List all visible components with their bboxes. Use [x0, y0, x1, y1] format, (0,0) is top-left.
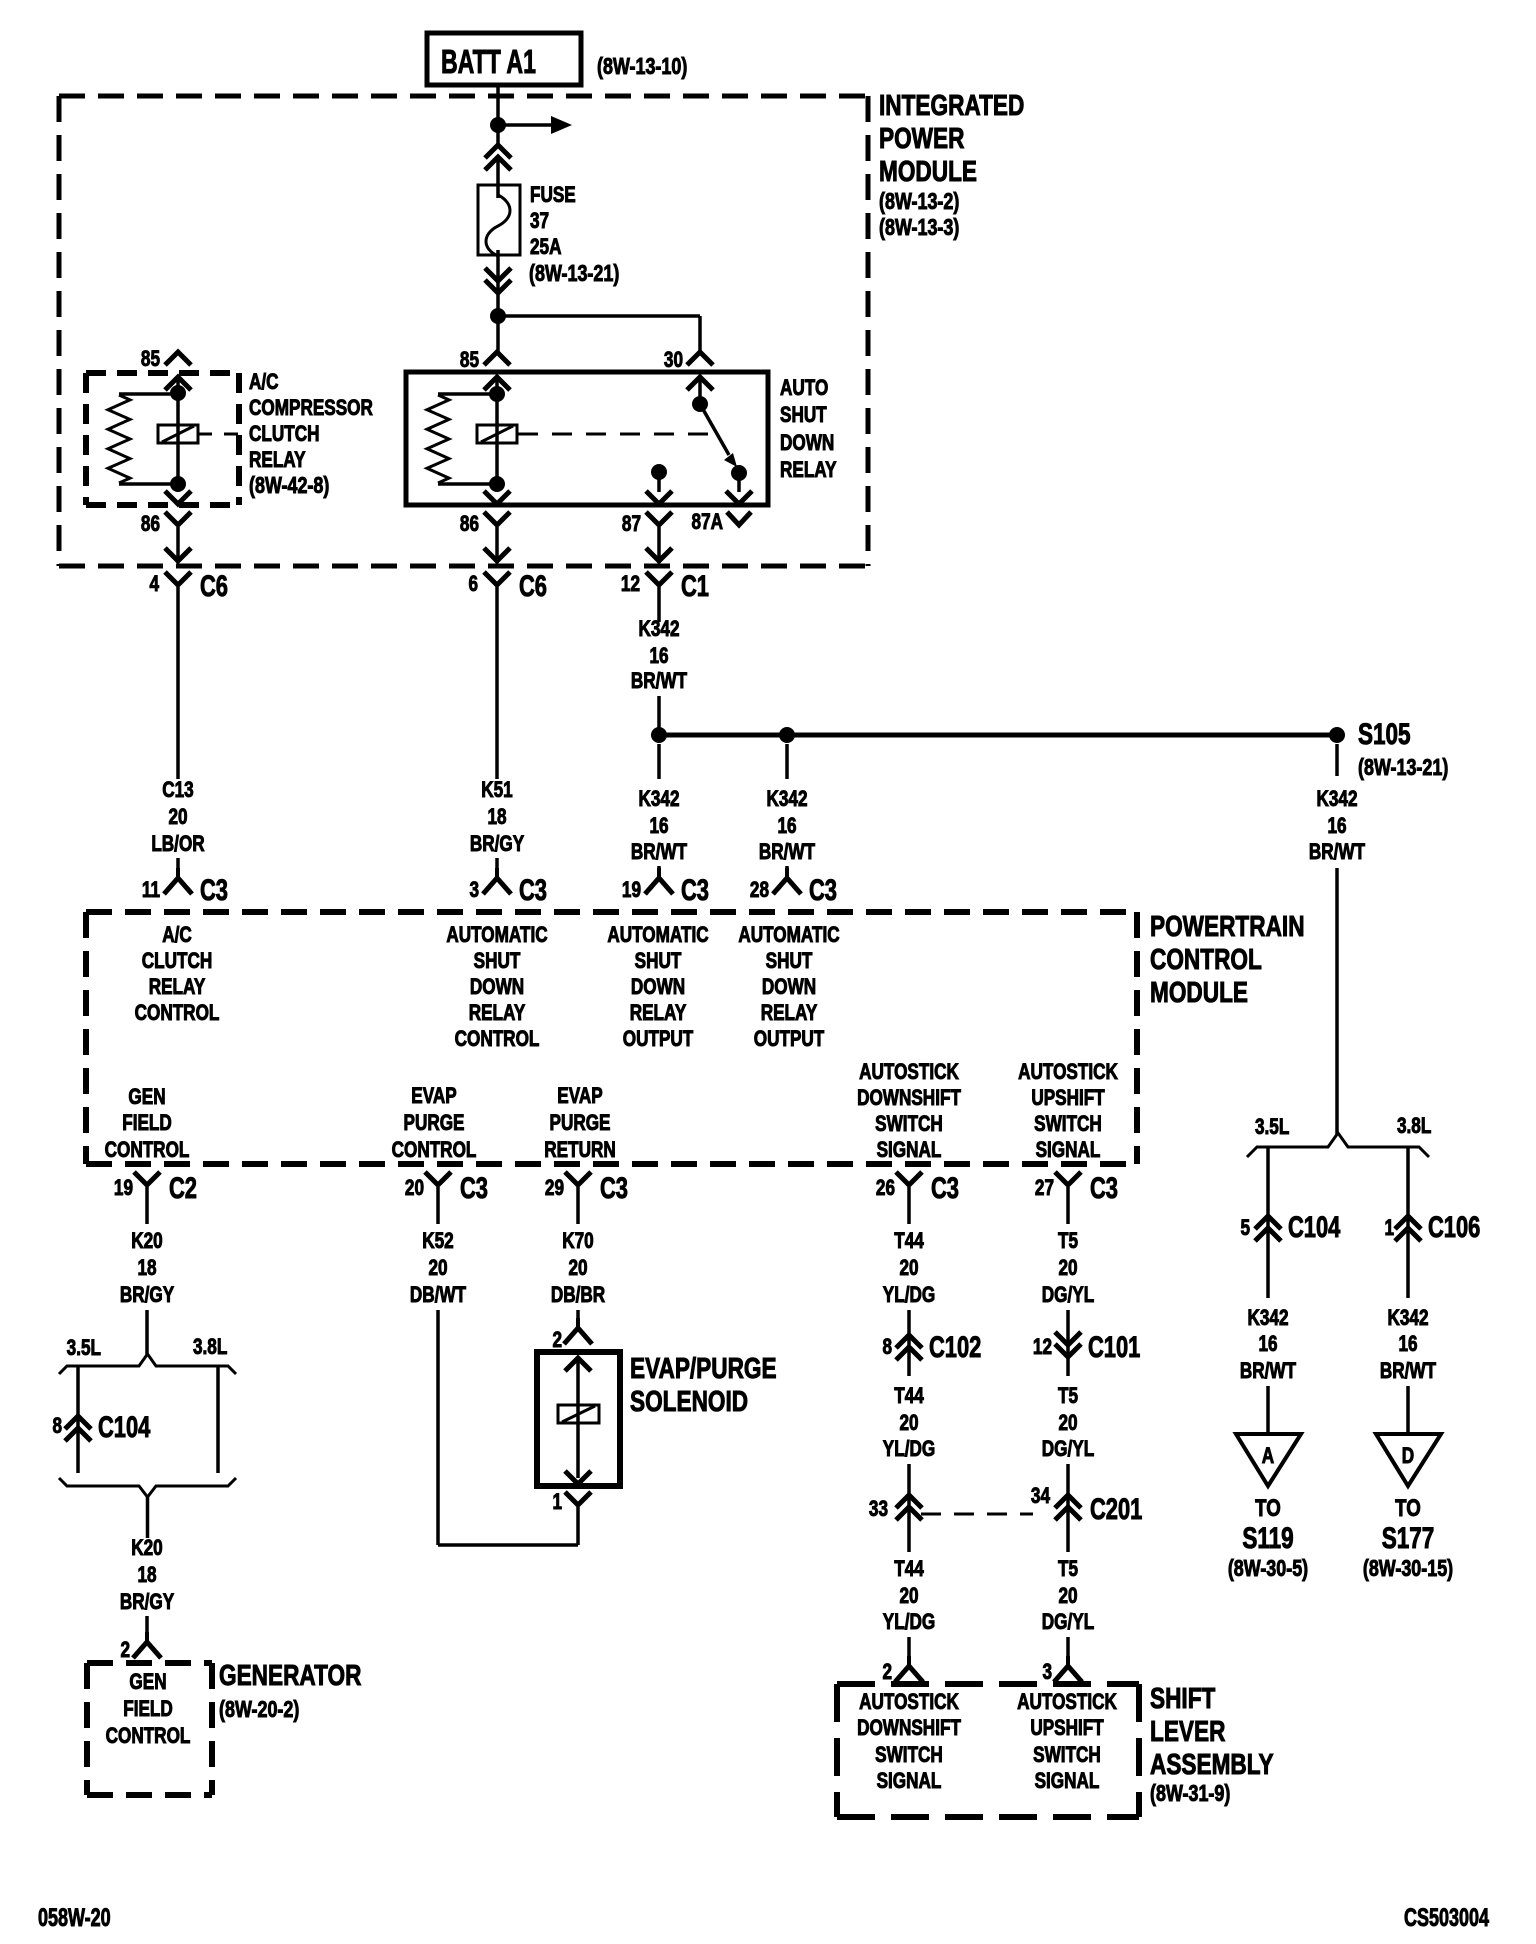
- drawing code CS503004: [1404, 1903, 1489, 1932]
- label SHIFT: [1150, 1681, 1215, 1714]
- svg-text:2: 2: [882, 1660, 892, 1685]
- svg-text:PURGE: PURGE: [404, 1111, 465, 1136]
- connector name C3 x578: [600, 1171, 628, 1205]
- svg-text:FUSE: FUSE: [530, 183, 576, 208]
- wire T44 to C201: [907, 1464, 911, 1552]
- wire C13 20 LB/OR upper segment: [176, 587, 180, 779]
- wire gauge 20 T5 lower: [1058, 1584, 1077, 1609]
- svg-text:(8W-30-5): (8W-30-5): [1228, 1556, 1308, 1582]
- reference (8W-13-21): [529, 261, 619, 287]
- svg-text:3.5L: 3.5L: [1255, 1115, 1289, 1140]
- svg-text:A/C: A/C: [249, 370, 279, 395]
- connector name C6: [200, 569, 228, 603]
- splice S105 node: [1329, 727, 1345, 743]
- reference (8W-13-10): [597, 54, 687, 80]
- pin 87 fork: [646, 512, 672, 525]
- wire stub to C3 pin 28: [785, 866, 789, 868]
- svg-text:T5: T5: [1058, 1229, 1078, 1254]
- svg-text:FIELD: FIELD: [123, 1697, 173, 1722]
- svg-text:K20: K20: [131, 1536, 162, 1561]
- pin 30 chevron ASD relay: [687, 352, 713, 365]
- cavity number 1 solenoid: [552, 1490, 562, 1515]
- cavity number 2 solenoid: [552, 1328, 562, 1353]
- powertrain control module dashed boundary: [86, 912, 1137, 1164]
- wire label K342 upper: [638, 617, 679, 642]
- label A/C: [249, 370, 279, 395]
- wire color YL/DG upper: [883, 1283, 935, 1308]
- svg-text:87: 87: [622, 512, 641, 537]
- wire color DB/WT: [410, 1283, 466, 1308]
- label CLUTCH: [249, 422, 320, 447]
- connector C3 cavity 20: [405, 1176, 424, 1201]
- svg-text:3.5L: 3.5L: [67, 1336, 101, 1361]
- wire K342 to off-page A: [1266, 1386, 1270, 1434]
- wire color DG/YL lower: [1042, 1610, 1094, 1635]
- svg-text:1: 1: [1384, 1216, 1394, 1241]
- split branch wire 3.8L right: [1406, 1148, 1410, 1298]
- label SHUT: [780, 403, 827, 428]
- svg-text:T5: T5: [1058, 1557, 1078, 1582]
- wire gauge 20: [168, 805, 187, 830]
- svg-text:BR/WT: BR/WT: [759, 840, 815, 865]
- svg-text:C13: C13: [162, 778, 193, 803]
- svg-text:27: 27: [1035, 1176, 1054, 1201]
- svg-text:BR/WT: BR/WT: [1309, 840, 1365, 865]
- wire label C13: [162, 778, 193, 803]
- svg-text:20: 20: [899, 1411, 918, 1436]
- solenoid cavity 2 symbol: [564, 1318, 592, 1344]
- svg-text:BR/WT: BR/WT: [631, 840, 687, 865]
- cavity number 5 C104: [1240, 1216, 1250, 1241]
- splice name S119: [1242, 1521, 1293, 1555]
- svg-text:SHUT: SHUT: [474, 949, 521, 974]
- svg-text:BR/GY: BR/GY: [120, 1283, 174, 1308]
- wire label K20 lower: [131, 1536, 162, 1561]
- label MODULE pcm: [1150, 975, 1248, 1008]
- cavity number 28: [750, 878, 769, 903]
- svg-text:8: 8: [52, 1414, 62, 1439]
- svg-text:S177: S177: [1382, 1521, 1435, 1555]
- pin 86 fork ASD relay: [484, 512, 510, 525]
- svg-text:20: 20: [899, 1256, 918, 1281]
- wire stub to C3 pin 3: [495, 858, 499, 868]
- pcm pin function AUTOMATIC SHUT DOWN RELAY OUTPUT first: [607, 923, 708, 948]
- stub below S105: [1335, 744, 1339, 776]
- svg-text:1: 1: [552, 1490, 562, 1515]
- label POWER: [879, 121, 965, 154]
- connector C201 chevrons cavity 34: [1055, 1495, 1081, 1520]
- connector C102 chevrons cavity 8: [896, 1335, 922, 1360]
- shift lever assembly dashed boundary: [837, 1684, 1139, 1817]
- ASD relay pin 87 chevron inside: [646, 491, 672, 504]
- connector C2 cavity 19: [114, 1176, 133, 1201]
- wire pin 86 to C6 x497: [495, 527, 499, 563]
- svg-text:DB/WT: DB/WT: [410, 1283, 466, 1308]
- junction node x659 on bus: [651, 727, 667, 743]
- split branch wire 3.5L right: [1266, 1148, 1270, 1298]
- letter A: [1262, 1444, 1274, 1469]
- connector name C106: [1428, 1210, 1480, 1244]
- svg-text:C3: C3: [681, 873, 709, 907]
- svg-text:CONTROL: CONTROL: [1150, 942, 1262, 975]
- wire label T5 lower: [1058, 1557, 1078, 1582]
- cavity number 3: [469, 878, 479, 903]
- svg-text:20: 20: [405, 1176, 424, 1201]
- svg-text:YL/DG: YL/DG: [883, 1610, 935, 1635]
- svg-text:28: 28: [750, 878, 769, 903]
- svg-text:16: 16: [777, 814, 796, 839]
- wire gauge 20 K52: [428, 1256, 447, 1281]
- generator pin function GEN: [129, 1670, 166, 1695]
- svg-text:DG/YL: DG/YL: [1042, 1610, 1094, 1635]
- connector name C3 x659: [681, 873, 709, 907]
- connector name C3 x1068: [1090, 1171, 1118, 1205]
- svg-text:C6: C6: [519, 569, 547, 603]
- connector half chevrons above fuse: [485, 145, 511, 170]
- svg-text:RETURN: RETURN: [544, 1138, 615, 1163]
- label DOWN: [780, 431, 834, 456]
- engine variant split brace bottom left: [59, 1478, 236, 1497]
- svg-text:C3: C3: [931, 1171, 959, 1205]
- wire gauge 20 T44 lower: [899, 1584, 918, 1609]
- cavity number 34: [1031, 1484, 1050, 1509]
- label 3.5L right split: [1255, 1115, 1289, 1140]
- svg-text:SHIFT: SHIFT: [1150, 1681, 1215, 1714]
- cavity number 19: [622, 878, 641, 903]
- connector name C3 x497: [519, 873, 547, 907]
- svg-text:BATT A1: BATT A1: [441, 44, 536, 81]
- junction node on battery feed: [490, 117, 506, 133]
- svg-text:CONTROL: CONTROL: [106, 1724, 191, 1749]
- label BATT A1: [441, 44, 536, 81]
- label LEVER: [1150, 1714, 1226, 1747]
- wire color BR/GY: [470, 832, 524, 857]
- svg-text:POWER: POWER: [879, 121, 965, 154]
- junction node below fuse: [490, 308, 506, 324]
- svg-text:C3: C3: [809, 873, 837, 907]
- connector C3 cavity 29: [545, 1176, 564, 1201]
- A/C relay coil wire: [176, 380, 180, 484]
- wire color YL/DG middle: [883, 1437, 935, 1462]
- svg-text:GEN: GEN: [128, 1085, 165, 1110]
- wire label T44 lower: [894, 1557, 924, 1582]
- svg-text:K342: K342: [1316, 787, 1357, 812]
- A/C relay pin 86 chevron inside: [165, 491, 191, 504]
- connector C3 cavity 28 symbol: [773, 868, 801, 894]
- wire color BR/WT x1268: [1240, 1359, 1296, 1384]
- connector name C104 right: [1288, 1210, 1341, 1244]
- solenoid pin 2 chevron inside: [565, 1358, 591, 1371]
- wire color DG/YL upper: [1042, 1283, 1094, 1308]
- svg-text:BR/WT: BR/WT: [1240, 1359, 1296, 1384]
- wire gauge 18: [487, 805, 506, 830]
- pcm pin function EVAP PURGE CONTROL: [411, 1084, 456, 1109]
- wire K20 to engine split: [145, 1310, 149, 1356]
- engine variant split brace top left: [59, 1354, 236, 1374]
- wire label K52: [422, 1229, 453, 1254]
- connector C3 fork x578: [565, 1172, 591, 1224]
- wire K20 below split: [146, 1497, 150, 1538]
- svg-text:37: 37: [530, 209, 549, 234]
- svg-text:16: 16: [1398, 1332, 1417, 1357]
- connector C3 cavity 11 symbol: [164, 868, 192, 894]
- svg-text:SHUT: SHUT: [766, 949, 813, 974]
- wire T5 to C101: [1066, 1310, 1070, 1376]
- shift lever cavity 2 symbol: [895, 1656, 923, 1682]
- wire gauge 16 x1408: [1398, 1332, 1417, 1357]
- svg-text:C104: C104: [98, 1410, 151, 1444]
- svg-text:16: 16: [1258, 1332, 1277, 1357]
- svg-text:C3: C3: [519, 873, 547, 907]
- ASD relay pin 30 chevron inside: [687, 377, 713, 390]
- wire label K70: [562, 1229, 593, 1254]
- label 3.8L right split: [1397, 1114, 1431, 1139]
- svg-text:K342: K342: [638, 617, 679, 642]
- svg-text:18: 18: [137, 1256, 156, 1281]
- relay K1 auto shut down relay box: [406, 372, 768, 505]
- svg-text:3: 3: [469, 878, 479, 903]
- svg-text:33: 33: [869, 1497, 888, 1522]
- reference (8W-13-3): [879, 215, 959, 241]
- wire color LB/OR: [151, 832, 204, 857]
- wire label K342 x1408: [1387, 1306, 1428, 1331]
- svg-text:S119: S119: [1242, 1521, 1293, 1555]
- wire gauge 16 x787: [777, 814, 796, 839]
- cavity number 12 C101: [1033, 1335, 1052, 1360]
- svg-text:DOWNSHIFT: DOWNSHIFT: [857, 1086, 961, 1111]
- svg-text:3.8L: 3.8L: [193, 1335, 227, 1360]
- svg-text:AUTOSTICK: AUTOSTICK: [1018, 1060, 1118, 1085]
- svg-text:C3: C3: [600, 1171, 628, 1205]
- svg-text:C3: C3: [460, 1171, 488, 1205]
- wire color BR/WT x659: [631, 840, 687, 865]
- svg-text:CONTROL: CONTROL: [455, 1027, 540, 1052]
- connector C104 chevrons cavity 8: [65, 1416, 91, 1441]
- value 37: [530, 209, 549, 234]
- wire label K342 x1268: [1247, 1306, 1288, 1331]
- pin 86 A/C relay: [141, 512, 160, 537]
- split branch wire 3.5L left: [76, 1367, 80, 1473]
- svg-text:C3: C3: [1090, 1171, 1118, 1205]
- svg-text:DOWNSHIFT: DOWNSHIFT: [857, 1716, 961, 1741]
- connector C1 cavity 12: [621, 572, 640, 597]
- ASD relay pin 85 chevron inside: [484, 377, 510, 390]
- svg-text:YL/DG: YL/DG: [883, 1437, 935, 1462]
- wire label K342 x787: [766, 787, 807, 812]
- svg-text:A/C: A/C: [162, 923, 192, 948]
- wire stub to C3 pin 11: [176, 858, 180, 868]
- ASD relay contact 87A: [731, 465, 747, 481]
- svg-text:C106: C106: [1428, 1210, 1480, 1244]
- svg-text:BR/GY: BR/GY: [470, 832, 524, 857]
- wire branch to ASD relay pin 30: [498, 316, 700, 352]
- cavity number 2 generator: [120, 1638, 130, 1663]
- label 3.5L left split: [67, 1336, 101, 1361]
- wire stub to C3 pin 19: [657, 866, 661, 868]
- connector C6 cavity 4: [149, 572, 159, 597]
- wire pin 87 to C1: [657, 527, 661, 563]
- wire T5 to C201: [1066, 1464, 1070, 1552]
- wire label T44 upper: [894, 1229, 924, 1254]
- connector C1 fork: [646, 572, 672, 585]
- label RELAY: [780, 458, 837, 483]
- svg-text:CONTROL: CONTROL: [105, 1138, 190, 1163]
- wire color DB/BR: [551, 1283, 605, 1308]
- pin 85 chevron A/C relay: [165, 352, 191, 365]
- svg-text:DOWN: DOWN: [762, 975, 816, 1000]
- svg-text:FIELD: FIELD: [122, 1111, 172, 1136]
- svg-text:LB/OR: LB/OR: [151, 832, 204, 857]
- svg-text:CLUTCH: CLUTCH: [249, 422, 320, 447]
- wire label T44 middle: [894, 1384, 924, 1409]
- svg-text:C3: C3: [200, 873, 228, 907]
- cavity number 2 shift lever: [882, 1660, 892, 1685]
- svg-text:19: 19: [114, 1176, 133, 1201]
- svg-text:SHUT: SHUT: [780, 403, 827, 428]
- svg-text:29: 29: [545, 1176, 564, 1201]
- arrow tap to other circuits: [498, 116, 572, 134]
- pcm pin function GEN FIELD CONTROL: [128, 1085, 165, 1110]
- svg-text:S105: S105: [1358, 717, 1411, 751]
- wire into fuse 37: [496, 158, 500, 198]
- svg-text:EVAP: EVAP: [411, 1084, 456, 1109]
- wire label K20 upper: [131, 1229, 162, 1254]
- ASD relay contact 87: [651, 464, 667, 480]
- ASD relay pin 87A wire: [737, 473, 741, 492]
- label 3.8L left split: [193, 1335, 227, 1360]
- svg-text:AUTOMATIC: AUTOMATIC: [446, 923, 547, 948]
- wire color BR/WT x1337: [1309, 840, 1365, 865]
- svg-text:T44: T44: [894, 1384, 924, 1409]
- connector half chevrons below fuse: [485, 268, 511, 293]
- svg-text:SIGNAL: SIGNAL: [1035, 1769, 1100, 1794]
- svg-text:20: 20: [428, 1256, 447, 1281]
- connector C3 cavity 3 symbol: [483, 868, 511, 894]
- A/C relay resistor top lead: [119, 392, 178, 396]
- reference (8W-30-5): [1228, 1556, 1308, 1582]
- svg-text:(8W-30-15): (8W-30-15): [1363, 1556, 1453, 1582]
- svg-text:TO: TO: [1255, 1495, 1281, 1522]
- svg-text:18: 18: [487, 805, 506, 830]
- splice bus wire to S105: [659, 733, 1337, 738]
- value 25A: [530, 235, 561, 260]
- connector C201 chevrons cavity 33: [896, 1495, 922, 1520]
- ASD relay switch pivot: [692, 396, 708, 412]
- solenoid coil: [558, 1405, 599, 1423]
- svg-text:SOLENOID: SOLENOID: [630, 1384, 748, 1417]
- svg-text:A: A: [1262, 1444, 1274, 1469]
- svg-text:EVAP: EVAP: [557, 1084, 602, 1109]
- svg-text:RELAY: RELAY: [469, 1001, 526, 1026]
- svg-text:16: 16: [1327, 814, 1346, 839]
- svg-text:30: 30: [664, 348, 683, 373]
- wire label T5 middle: [1058, 1384, 1078, 1409]
- label INTEGRATED POWER MODULE: [879, 88, 1024, 121]
- connector chevron at IPM boundary x497: [484, 548, 510, 561]
- pin 86 ASD relay: [460, 512, 479, 537]
- svg-text:UPSHIFT: UPSHIFT: [1030, 1716, 1103, 1741]
- svg-text:20: 20: [1058, 1411, 1077, 1436]
- svg-text:DOWN: DOWN: [470, 975, 524, 1000]
- connector C3 cavity 26: [876, 1176, 895, 1201]
- svg-text:2: 2: [552, 1328, 562, 1353]
- svg-text:DG/YL: DG/YL: [1042, 1283, 1094, 1308]
- wire gauge 16 upper: [649, 644, 668, 669]
- svg-text:YL/DG: YL/DG: [883, 1283, 935, 1308]
- pcm pin function EVAP PURGE RETURN: [557, 1084, 602, 1109]
- solenoid pin 1 fork: [565, 1492, 591, 1545]
- svg-text:ASSEMBLY: ASSEMBLY: [1150, 1747, 1274, 1780]
- wire gauge 20 T5 middle: [1058, 1411, 1077, 1436]
- ASD relay pin 86 chevron inside: [484, 491, 510, 504]
- svg-text:BR/WT: BR/WT: [631, 669, 687, 694]
- svg-text:DOWN: DOWN: [631, 975, 685, 1000]
- connector name C104 left: [98, 1410, 151, 1444]
- label ASSEMBLY: [1150, 1747, 1274, 1780]
- wire color YL/DG lower: [883, 1610, 935, 1635]
- svg-text:AUTOMATIC: AUTOMATIC: [607, 923, 708, 948]
- svg-text:20: 20: [1058, 1584, 1077, 1609]
- label SOLENOID: [630, 1384, 748, 1417]
- svg-text:MODULE: MODULE: [879, 154, 977, 187]
- svg-text:(8W-13-3): (8W-13-3): [879, 215, 959, 241]
- resistor in ASD relay: [427, 395, 449, 483]
- svg-text:SIGNAL: SIGNAL: [877, 1138, 942, 1163]
- generator dashed boundary: [87, 1663, 212, 1795]
- connector C2 fork: [134, 1172, 160, 1224]
- svg-text:(8W-13-2): (8W-13-2): [879, 189, 959, 215]
- connector C106 chevrons cavity 1: [1395, 1216, 1421, 1241]
- svg-text:RELAY: RELAY: [761, 1001, 818, 1026]
- svg-text:INTEGRATED: INTEGRATED: [879, 88, 1024, 121]
- ASD relay top junction: [489, 386, 505, 402]
- split branch wire 3.8L left: [216, 1367, 220, 1473]
- pin 30 ASD relay: [664, 348, 683, 373]
- wire K51 18 BR/GY upper segment: [495, 587, 499, 779]
- ASD relay pin 87A chevron inside: [726, 491, 752, 504]
- svg-text:11: 11: [142, 878, 160, 903]
- wire below fuse: [496, 250, 500, 316]
- connector name C3 x787: [809, 873, 837, 907]
- connector C3 fork x438: [425, 1172, 451, 1224]
- evap purge solenoid box: [537, 1352, 620, 1486]
- wire color DG/YL middle: [1042, 1437, 1094, 1462]
- splice name S105: [1358, 717, 1411, 751]
- label EVAP/PURGE: [630, 1351, 777, 1384]
- connector C104 chevrons cavity 5: [1255, 1216, 1281, 1241]
- pin 87A open contact V: [727, 512, 751, 525]
- svg-text:26: 26: [876, 1176, 895, 1201]
- wire T44 to C102: [907, 1310, 911, 1376]
- cavity number 8 C102: [882, 1335, 892, 1360]
- label TO S119: [1255, 1495, 1281, 1522]
- svg-text:2: 2: [120, 1638, 130, 1663]
- shift lever pin function AUTOSTICK UPSHIFT SWITCH SIGNAL: [1017, 1690, 1117, 1715]
- svg-text:RELAY: RELAY: [630, 1001, 687, 1026]
- wire pin 86 to C6: [176, 527, 180, 563]
- wire gauge 18 K20: [137, 1256, 156, 1281]
- svg-text:4: 4: [149, 572, 159, 597]
- svg-text:12: 12: [1033, 1335, 1052, 1360]
- svg-text:SWITCH: SWITCH: [875, 1743, 943, 1768]
- svg-text:AUTOSTICK: AUTOSTICK: [859, 1060, 959, 1085]
- svg-text:LEVER: LEVER: [1150, 1714, 1226, 1747]
- svg-text:19: 19: [622, 878, 641, 903]
- svg-text:GEN: GEN: [129, 1670, 166, 1695]
- ASD relay pin 87 wire: [657, 472, 661, 492]
- wire gauge 20 T44 upper: [899, 1256, 918, 1281]
- cavity number 3 shift lever: [1042, 1660, 1052, 1685]
